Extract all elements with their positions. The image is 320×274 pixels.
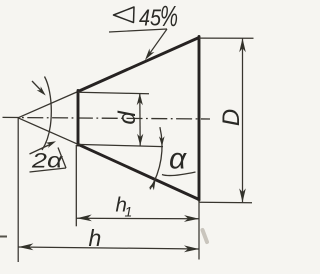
svg-text:1: 1 (125, 203, 133, 219)
svg-text:α: α (169, 143, 187, 176)
leader line with arrow to top edge (148, 29, 168, 57)
centerline (dash-dot axis) (3, 117, 211, 119)
extension line small-end down (for h1) (75, 145, 77, 226)
extension line top of d (78, 92, 149, 94)
arrow at a arc top end (159, 136, 165, 146)
svg-text:h: h (89, 225, 102, 251)
thin construction line apex to top-left corner (18, 92, 78, 118)
svg-text:45: 45 (139, 4, 162, 31)
angle arc a (alpha) near big end (150, 127, 162, 189)
svg-text:D: D (218, 109, 245, 126)
extension line big-end down (for h, h1) (198, 200, 200, 260)
scan artifact: dash at left edge (0, 236, 7, 238)
thin construction line apex to bottom-left corner (18, 118, 78, 145)
dimension line d (139, 93, 141, 145)
underline of a label (162, 172, 196, 176)
dimension line h1 (77, 217, 200, 220)
dimension line D (242, 38, 244, 202)
extension line bottom of D (199, 201, 252, 204)
arrow at a arc bottom end (149, 180, 156, 190)
taper symbol (triangle) (114, 7, 135, 23)
svg-text:d: d (114, 111, 141, 125)
arrow shaft to 2a arc upper end (32, 81, 43, 93)
cone frustum thick outline (78, 37, 199, 201)
dimension line h (18, 247, 199, 249)
scan artifact: faint smudge below h arrow right end (203, 230, 208, 242)
svg-text:%: % (160, 1, 178, 33)
tail stroke right of 2a label (58, 148, 66, 169)
extension line top of D (199, 37, 254, 39)
angle arc 2a at apex (42, 77, 51, 151)
leader underline of taper label (109, 29, 167, 32)
arrow shaft to 2a arc lower end (30, 144, 53, 155)
extension line bottom of d (77, 144, 163, 146)
underline of 2a label (30, 168, 67, 172)
extension line from apex down (for h) (17, 118, 19, 262)
